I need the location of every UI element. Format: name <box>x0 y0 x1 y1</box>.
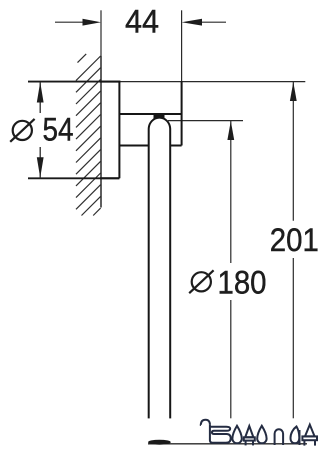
ring tube (side view) <box>149 118 171 445</box>
wall plate (rosette) <box>100 81 120 178</box>
wire dim o54 vertical shafts <box>39 82 41 113</box>
logo glyph V stem and bottom <box>210 425 228 443</box>
nub joint <box>154 114 165 120</box>
logo glyph drop 1 <box>232 426 241 444</box>
bracket housing <box>119 81 181 146</box>
wire bottom reference line o54 y178.3 <box>28 177 119 179</box>
logo glyph V double bump <box>210 427 231 443</box>
logo glyph drop 2 <box>257 426 266 444</box>
watermark white box <box>140 418 320 447</box>
logo glyph V curl <box>200 420 210 425</box>
label o180 diameter symbol <box>189 270 213 293</box>
logo glyph d triangle 2 <box>305 425 315 437</box>
logo glyph n arch <box>275 429 284 445</box>
wire o180 extension line <box>168 120 243 122</box>
arrow o54 down <box>37 157 44 178</box>
svg-text:201: 201 <box>270 222 319 258</box>
wire extension line 44 right / product front upper <box>181 10 183 81</box>
wire bottom reference line y443.8 <box>148 443 307 445</box>
logo glyph d triangle 1 <box>245 426 253 437</box>
wire dim 201 vertical shafts <box>292 81 294 221</box>
svg-text:44: 44 <box>125 3 159 39</box>
svg-text:180: 180 <box>218 265 267 301</box>
wire dim 44 left shaft <box>55 21 88 23</box>
logo glyph a <box>291 427 300 444</box>
wire top reference line y81 thin right <box>120 81 305 83</box>
wire extension line 44 left <box>100 10 102 56</box>
arrow 44 right <box>182 19 202 26</box>
wire dim 44 right shaft <box>196 21 226 23</box>
svg-text:54: 54 <box>43 111 74 147</box>
ring bottom arc <box>148 440 171 445</box>
wire top reference line y81 thick left <box>28 81 120 83</box>
label o54 diameter symbol <box>10 119 34 142</box>
arrow 44 left <box>83 19 102 26</box>
arrow o180 up <box>227 121 234 140</box>
wire dim o180 vertical shafts <box>230 121 232 263</box>
wall face line <box>100 56 102 208</box>
arrow 201 up <box>290 82 297 101</box>
wall hatching <box>76 54 101 216</box>
arrow o54 up <box>37 82 44 103</box>
watermark logo <box>200 420 317 446</box>
